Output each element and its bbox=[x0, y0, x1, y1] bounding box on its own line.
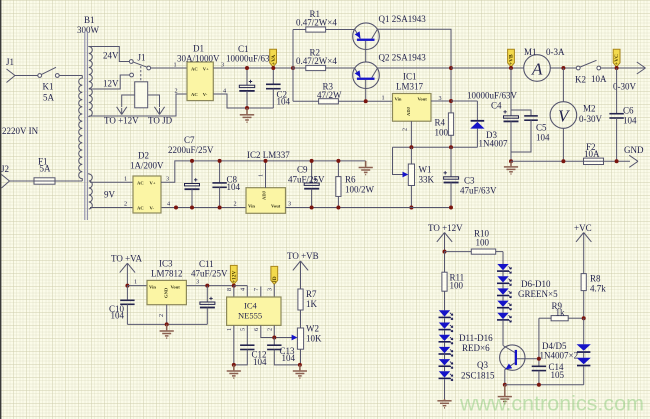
wire IC3 gnd bus bbox=[127, 323, 207, 325]
svg-text:M2: M2 bbox=[583, 104, 596, 114]
wire pins 8 4 tie bbox=[234, 285, 248, 287]
diode D3 bbox=[470, 101, 484, 147]
svg-text:JD: JD bbox=[272, 276, 278, 283]
wire J1 to K1 bbox=[15, 75, 38, 77]
svg-text:TO +VA: TO +VA bbox=[111, 254, 142, 264]
capacitor C9 bbox=[304, 161, 319, 208]
resistor R1 bbox=[293, 27, 355, 32]
svg-text:GND: GND bbox=[164, 287, 169, 298]
wire pin2 stub bbox=[273, 325, 275, 337]
svg-text:J1: J1 bbox=[138, 53, 146, 63]
svg-text:TO +12V: TO +12V bbox=[104, 116, 139, 126]
LED D7 bbox=[497, 276, 511, 288]
net label tag +VB bbox=[508, 49, 515, 67]
voltmeter M2 bbox=[550, 68, 577, 161]
svg-text:2: 2 bbox=[402, 128, 409, 131]
wire output rail to M1 bbox=[451, 67, 524, 69]
capacitor C5 bbox=[511, 110, 538, 152]
svg-text:7: 7 bbox=[253, 288, 260, 291]
svg-text:4: 4 bbox=[223, 88, 226, 95]
svg-text:C4: C4 bbox=[491, 101, 502, 111]
wire Q1 collector to output bbox=[377, 29, 451, 113]
svg-text:2: 2 bbox=[158, 314, 165, 317]
svg-text:LM317: LM317 bbox=[396, 82, 424, 92]
wire pin6 pin2 tie bbox=[261, 325, 293, 337]
svg-text:24V: 24V bbox=[103, 51, 119, 61]
svg-text:W1: W1 bbox=[419, 165, 432, 175]
wire Q2 collector to output bbox=[377, 67, 451, 69]
svg-text:4: 4 bbox=[240, 288, 247, 291]
wire pin7 stub bbox=[260, 286, 262, 297]
node C8 top bbox=[218, 159, 222, 163]
wire to IC3 Vin bbox=[127, 285, 147, 287]
wire D1 pin3 main rail bbox=[213, 67, 293, 69]
svg-text:ADJ: ADJ bbox=[262, 190, 267, 200]
svg-text:IC3: IC3 bbox=[159, 259, 173, 269]
svg-text:C11: C11 bbox=[199, 259, 214, 269]
node C7 top bbox=[190, 159, 194, 163]
svg-text:1: 1 bbox=[134, 279, 137, 286]
wire IC3 GND pin bbox=[166, 305, 168, 325]
svg-text:30A/1000V: 30A/1000V bbox=[177, 54, 220, 64]
ammeter M1 bbox=[524, 55, 551, 82]
svg-text:5A: 5A bbox=[43, 93, 55, 103]
svg-text:10K: 10K bbox=[306, 334, 322, 344]
switch J1 selector common contact bbox=[147, 66, 151, 70]
svg-text:1: 1 bbox=[258, 174, 265, 177]
arrow TO +VB bbox=[293, 261, 308, 289]
node collectors join bbox=[449, 66, 453, 70]
svg-text:2: 2 bbox=[124, 201, 127, 208]
svg-text:D2: D2 bbox=[138, 151, 149, 161]
LED D8 bbox=[497, 288, 511, 300]
svg-text:R6: R6 bbox=[345, 175, 356, 185]
wire 24V tap bbox=[89, 47, 130, 62]
node R6 top bbox=[336, 159, 340, 163]
svg-text:+12V: +12V bbox=[231, 271, 237, 283]
wire J2 to F1 bbox=[10, 180, 35, 182]
svg-text:B1: B1 bbox=[84, 15, 95, 25]
capacitor C6 bbox=[609, 68, 623, 161]
ground below W2 C13 bbox=[293, 365, 307, 378]
svg-text:J1: J1 bbox=[6, 57, 14, 67]
node IC2 pin1 on gnd rail bbox=[264, 159, 268, 163]
svg-text:www.cntronics.com: www.cntronics.com bbox=[459, 392, 644, 416]
wire 9V bottom to D2 pin2 bbox=[90, 207, 133, 209]
svg-text:0-30V: 0-30V bbox=[579, 114, 602, 124]
svg-text:M1: M1 bbox=[524, 47, 537, 57]
svg-text:C3: C3 bbox=[464, 176, 475, 186]
timer IC4 NE555 bbox=[227, 297, 281, 325]
svg-text:0-3A: 0-3A bbox=[546, 47, 565, 57]
diode D4 bbox=[577, 318, 591, 358]
svg-text:33K: 33K bbox=[419, 175, 435, 185]
transistor Q1 bbox=[353, 23, 380, 62]
svg-text:J2: J2 bbox=[1, 164, 9, 174]
ground below red leds bbox=[437, 399, 451, 408]
node W2 gnd bbox=[298, 363, 302, 367]
arrow TO +VA bbox=[120, 263, 135, 285]
svg-text:IC4: IC4 bbox=[244, 301, 258, 311]
svg-text:2: 2 bbox=[267, 328, 274, 331]
svg-text:TO JD: TO JD bbox=[148, 116, 173, 126]
svg-text:R4: R4 bbox=[435, 118, 446, 128]
net label tag +VC bbox=[613, 49, 620, 67]
net label tag JD bbox=[271, 266, 278, 284]
svg-text:IC1: IC1 bbox=[403, 72, 417, 82]
svg-text:D11-D16: D11-D16 bbox=[459, 333, 493, 343]
LED D11 bbox=[439, 310, 453, 322]
capacitor C13 bbox=[267, 338, 300, 365]
svg-text:R7: R7 bbox=[306, 289, 317, 299]
svg-text:Vout: Vout bbox=[171, 285, 181, 290]
node Q3 base C14 bbox=[537, 357, 541, 361]
ground end of gnd rail bbox=[359, 161, 373, 175]
svg-text:3: 3 bbox=[196, 279, 199, 286]
node pin1 gnd bbox=[232, 363, 236, 367]
svg-text:10000uF/63V: 10000uF/63V bbox=[226, 54, 277, 64]
svg-text:Vin: Vin bbox=[248, 204, 255, 209]
svg-text:104: 104 bbox=[536, 133, 550, 143]
svg-text:GREEN×5: GREEN×5 bbox=[518, 289, 558, 299]
resistor R9 bbox=[539, 316, 584, 321]
capacitor C4 bbox=[503, 68, 518, 161]
capacitor C12 bbox=[234, 325, 255, 365]
svg-text:2: 2 bbox=[234, 201, 237, 208]
wire K1 to transformer primary bbox=[59, 75, 82, 77]
transistor Q2 bbox=[353, 62, 380, 101]
node +VA on rail bbox=[271, 66, 275, 70]
wire output gnd rail bbox=[511, 160, 584, 162]
wire pin3 stub bbox=[273, 284, 275, 297]
svg-text:RED×6: RED×6 bbox=[462, 343, 490, 353]
svg-text:Q3: Q3 bbox=[477, 360, 488, 370]
capacitor C7 bbox=[185, 161, 200, 208]
svg-text:AC: AC bbox=[191, 92, 198, 97]
svg-text:Vin: Vin bbox=[395, 97, 402, 102]
regulator IC3 LM7812 bbox=[147, 280, 186, 304]
svg-text:4.7k: 4.7k bbox=[590, 284, 606, 294]
svg-text:Vout: Vout bbox=[271, 204, 281, 209]
svg-text:104: 104 bbox=[253, 357, 267, 367]
node Vout rail bbox=[449, 99, 453, 103]
svg-text:NE555: NE555 bbox=[238, 310, 262, 320]
svg-text:V+: V+ bbox=[203, 66, 209, 71]
node ADJ rail W1 bbox=[409, 145, 413, 149]
IC2 pin1 wire bbox=[265, 161, 267, 188]
node R10 R11 bbox=[443, 250, 447, 254]
svg-text:D6-D10: D6-D10 bbox=[521, 279, 551, 289]
node C6 gnd bbox=[615, 159, 619, 163]
connector J1 symbol bbox=[7, 69, 16, 83]
wire pin1 to ground bbox=[233, 325, 235, 365]
node +VC C6 bbox=[615, 66, 619, 70]
wire IC3 Vout bbox=[186, 285, 233, 287]
node M2 gnd bbox=[561, 159, 565, 163]
node C1 top bbox=[245, 66, 249, 70]
svg-text:3: 3 bbox=[221, 62, 224, 69]
svg-text:D1: D1 bbox=[193, 44, 204, 54]
svg-text:47uF/25V: 47uF/25V bbox=[288, 175, 325, 185]
wire IC1 Vout bbox=[431, 100, 451, 102]
svg-text:V-: V- bbox=[203, 92, 208, 97]
relay coil wire right bbox=[148, 95, 160, 107]
node C11 top bbox=[205, 284, 209, 288]
wire Vout rail to D3 C4 bbox=[451, 100, 477, 102]
svg-text:3: 3 bbox=[166, 176, 169, 183]
node C9 bottom bbox=[310, 206, 314, 210]
svg-text:1N4007: 1N4007 bbox=[479, 139, 508, 149]
svg-text:+VC: +VC bbox=[614, 54, 620, 65]
svg-text:10A: 10A bbox=[591, 74, 607, 84]
switch K2 bbox=[576, 60, 600, 70]
svg-text:4: 4 bbox=[167, 201, 170, 208]
svg-text:3: 3 bbox=[267, 288, 274, 291]
svg-text:2: 2 bbox=[175, 88, 178, 95]
transformer B1 secondary top winding bbox=[89, 46, 93, 117]
svg-text:47uF/63V: 47uF/63V bbox=[460, 186, 497, 196]
node C3 corner on V- rail bbox=[449, 206, 453, 210]
svg-text:2SC1815: 2SC1815 bbox=[461, 371, 495, 381]
node C2 bottom bbox=[245, 106, 249, 110]
wire D2 pin3 up to gnd rail bbox=[161, 161, 366, 182]
svg-text:100: 100 bbox=[476, 237, 490, 247]
svg-text:10000uF/63V: 10000uF/63V bbox=[467, 91, 518, 101]
terminal 24V contact bbox=[129, 60, 133, 64]
diode D5 bbox=[577, 358, 591, 385]
resistor R4 bbox=[448, 113, 453, 147]
svg-text:47uF/25V: 47uF/25V bbox=[191, 269, 228, 279]
svg-text:2200uF/25V: 2200uF/25V bbox=[168, 145, 214, 155]
svg-text:1: 1 bbox=[124, 176, 127, 183]
wire emitter rail bbox=[505, 384, 584, 386]
node pin2 bbox=[272, 336, 276, 340]
wire F1 to transformer primary bbox=[55, 180, 82, 182]
svg-text:C6: C6 bbox=[623, 106, 634, 116]
node C4 gnd bbox=[509, 159, 513, 163]
svg-text:C7: C7 bbox=[184, 135, 195, 145]
node +VB C4 bbox=[509, 66, 513, 70]
connector J2 symbol bbox=[2, 175, 10, 189]
LED D14 bbox=[439, 347, 453, 359]
LED D15 bbox=[439, 359, 453, 371]
node W1 bottom on V- rail bbox=[409, 206, 413, 210]
transformer B1 secondary 9V winding bbox=[89, 173, 93, 209]
net label tag +12V bbox=[230, 265, 237, 284]
resistor R3 bbox=[293, 99, 393, 104]
svg-text:Q1 2SA1943: Q1 2SA1943 bbox=[379, 14, 427, 24]
arrow +VC bbox=[576, 233, 591, 274]
wire IC1 ADJ pin bbox=[410, 121, 412, 147]
svg-text:100: 100 bbox=[450, 281, 464, 291]
resistor R6 bbox=[336, 161, 341, 208]
svg-text:+VB: +VB bbox=[509, 54, 515, 65]
svg-text:K2: K2 bbox=[575, 75, 586, 85]
svg-text:0.47/2W×4: 0.47/2W×4 bbox=[296, 18, 337, 28]
svg-text:5A: 5A bbox=[40, 164, 52, 174]
svg-text:C5: C5 bbox=[536, 123, 547, 133]
svg-text:6: 6 bbox=[253, 328, 260, 331]
svg-text:0.47/2W×4: 0.47/2W×4 bbox=[296, 56, 337, 66]
arrow TO +12V bbox=[117, 107, 127, 115]
svg-text:W2: W2 bbox=[306, 324, 319, 334]
node pin8 bbox=[232, 284, 236, 288]
ground below C1 bbox=[240, 108, 254, 122]
node Q bases on R3 rail bbox=[364, 99, 368, 103]
svg-text:C1: C1 bbox=[238, 44, 249, 54]
svg-text:1: 1 bbox=[226, 328, 233, 331]
node +VA C10 bbox=[125, 284, 129, 288]
switch J1 selector lever bbox=[133, 62, 147, 67]
output arrow 0-30V bbox=[637, 62, 646, 74]
transformer B1 core bbox=[85, 31, 88, 220]
wire pin4 stub bbox=[246, 286, 248, 297]
svg-text:V+: V+ bbox=[150, 181, 156, 186]
capacitor C1 bbox=[239, 68, 254, 108]
resistor R8 bbox=[581, 274, 586, 319]
node Q3 emitter rail bbox=[503, 383, 507, 387]
wire IC2 Vout rail bbox=[286, 207, 412, 209]
resistor R2 bbox=[293, 65, 355, 70]
svg-text:100: 100 bbox=[435, 128, 449, 138]
GND arrow bbox=[629, 155, 638, 167]
svg-text:C9: C9 bbox=[297, 165, 308, 175]
wire pin8 stub bbox=[233, 286, 235, 297]
capacitor C8 bbox=[212, 161, 226, 208]
ground below C4 C5 bbox=[504, 161, 518, 174]
svg-text:ADJ: ADJ bbox=[406, 106, 411, 116]
svg-text:105: 105 bbox=[551, 370, 565, 380]
capacitor C14 bbox=[532, 366, 546, 385]
net label tag +VA bbox=[270, 49, 277, 67]
regulator IC1 LM317 bbox=[393, 94, 432, 122]
wire junction fan vertical bbox=[292, 30, 294, 102]
LED D6 bbox=[497, 264, 511, 276]
svg-text:300W: 300W bbox=[77, 25, 100, 35]
arrow TO JD bbox=[154, 107, 164, 115]
wire M1 to K2 bbox=[550, 67, 576, 69]
relay link dashed bbox=[140, 66, 142, 82]
capacitor C11 bbox=[200, 286, 215, 325]
capacitor C3 bbox=[444, 147, 459, 207]
svg-text:104: 104 bbox=[111, 310, 125, 320]
node R6 bottom bbox=[336, 206, 340, 210]
wire 12V tap bbox=[89, 75, 130, 89]
transformer B1 primary winding bbox=[79, 76, 83, 182]
svg-text:TO +12V: TO +12V bbox=[428, 223, 463, 233]
potentiometer W2 bbox=[292, 328, 304, 365]
svg-text:LM7812: LM7812 bbox=[151, 269, 183, 279]
sheet edge line bbox=[0, 0, 2, 419]
svg-text:3: 3 bbox=[288, 201, 291, 208]
svg-text:Vout: Vout bbox=[418, 97, 428, 102]
svg-text:A: A bbox=[531, 60, 543, 79]
regulator IC2 LM337 bbox=[246, 188, 286, 214]
svg-text:GND: GND bbox=[624, 145, 644, 155]
svg-text:1N4007×2: 1N4007×2 bbox=[540, 350, 579, 360]
svg-text:104: 104 bbox=[277, 96, 291, 106]
svg-text:1: 1 bbox=[382, 95, 385, 102]
fuse F1 bbox=[34, 157, 55, 185]
svg-text:104: 104 bbox=[623, 116, 637, 126]
svg-text:2220V IN: 2220V IN bbox=[2, 126, 39, 136]
arrow TO +12V bbox=[437, 233, 452, 252]
svg-text:+VC: +VC bbox=[574, 223, 592, 233]
potentiometer W1 bbox=[393, 147, 415, 207]
node C14 bottom bbox=[537, 383, 541, 387]
wire 9V top to D2 pin1 bbox=[90, 181, 133, 183]
LED D13 bbox=[439, 335, 453, 347]
wire F2 to GND arrow bbox=[604, 160, 631, 162]
svg-text:5: 5 bbox=[240, 328, 247, 331]
svg-text:K1: K1 bbox=[43, 82, 54, 92]
svg-text:Q2 2SA1943: Q2 2SA1943 bbox=[379, 53, 427, 63]
capacitor C10 bbox=[120, 286, 134, 325]
svg-text:1k: 1k bbox=[556, 307, 566, 317]
svg-text:1K: 1K bbox=[306, 299, 318, 309]
wire V- rail bbox=[161, 183, 451, 208]
node R8 R9 D4 bbox=[582, 316, 586, 320]
terminal 12V contact bbox=[130, 73, 134, 77]
relay coil box bbox=[135, 82, 148, 108]
LED D16 bbox=[439, 371, 453, 399]
svg-text:47/2W: 47/2W bbox=[317, 90, 342, 100]
transistor Q3 bbox=[500, 345, 539, 385]
fuse F2 bbox=[584, 158, 604, 164]
svg-text:1A/200V: 1A/200V bbox=[130, 161, 164, 171]
node IC3 gnd bbox=[165, 322, 169, 326]
svg-text:10A: 10A bbox=[584, 149, 600, 159]
node ADJ rail C3 bbox=[449, 145, 453, 149]
wire ADJ rail bbox=[393, 146, 478, 148]
LED D9 bbox=[497, 301, 511, 313]
svg-text:V-: V- bbox=[150, 206, 155, 211]
ground below IC3 bbox=[160, 324, 174, 338]
LED D12 bbox=[439, 323, 453, 335]
svg-text:V: V bbox=[558, 107, 571, 126]
switch K1 bbox=[38, 67, 59, 102]
node M2 tap bbox=[561, 66, 565, 70]
svg-text:IC2 LM337: IC2 LM337 bbox=[247, 150, 290, 160]
capacitor C2 bbox=[266, 68, 281, 108]
svg-text:TO +VB: TO +VB bbox=[287, 251, 319, 261]
node C9 top bbox=[310, 159, 314, 163]
relay coil wire left bbox=[122, 95, 135, 107]
svg-text:12V: 12V bbox=[103, 79, 119, 89]
resistor R11 bbox=[442, 252, 447, 311]
node C7 bottom bbox=[190, 206, 194, 210]
resistor R7 bbox=[298, 289, 303, 328]
wire R9 left down bbox=[538, 318, 540, 366]
wire D1 pin4 bbox=[213, 94, 273, 108]
wire J1 common to D1 pin1 bbox=[151, 67, 187, 69]
svg-text:100/2W: 100/2W bbox=[345, 185, 375, 195]
svg-text:8: 8 bbox=[226, 288, 233, 291]
wire R10 down to green leds bbox=[502, 252, 504, 264]
resistor R10 bbox=[445, 249, 504, 254]
svg-text:Vin: Vin bbox=[149, 285, 156, 290]
node D2 pin4 rail bbox=[174, 206, 178, 210]
svg-text:9V: 9V bbox=[104, 190, 116, 200]
svg-text:104: 104 bbox=[282, 353, 296, 363]
LED D10 bbox=[497, 313, 511, 346]
node C8 bottom bbox=[218, 206, 222, 210]
wire K2 to output bbox=[601, 67, 638, 69]
svg-text:104: 104 bbox=[227, 182, 241, 192]
bridge rectifier D2 bbox=[133, 176, 161, 213]
ground below IC4 pin1 bbox=[227, 365, 241, 378]
svg-text:AC: AC bbox=[191, 66, 198, 71]
